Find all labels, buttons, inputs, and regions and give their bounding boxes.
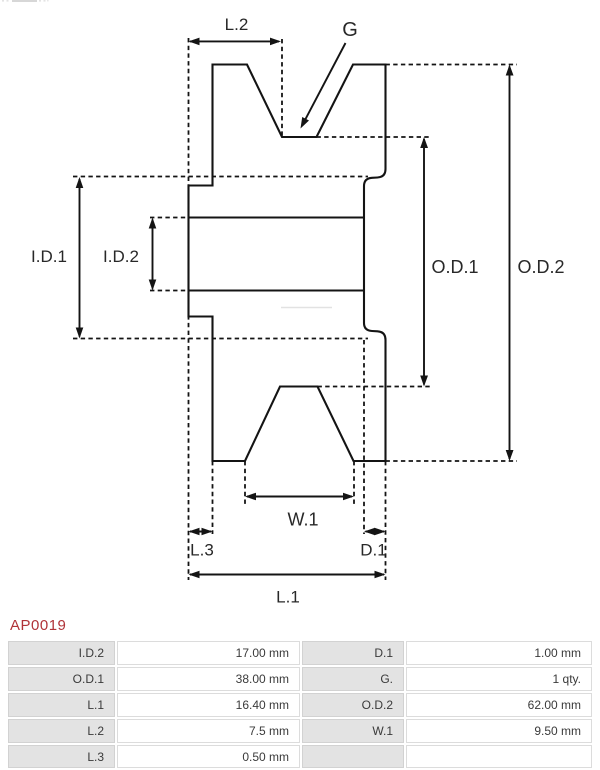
- dimension D.1: [364, 528, 386, 536]
- extension line: left face vertical (x=188.5): [188, 38, 190, 580]
- bore line top (I.D.2 upper): [189, 216, 365, 218]
- dimension L.2: [189, 38, 282, 46]
- extension line: I.D.2 top horizontal: [150, 217, 189, 219]
- svg-text:G: G: [342, 19, 358, 41]
- extension line: bottom O.D.2 horizontal (y=461): [386, 460, 518, 462]
- extension line: I.D.1 top horizontal: [73, 176, 368, 178]
- dimension O.D.1: [420, 137, 428, 387]
- specification table: [6, 639, 594, 770]
- pulley cross-section outline: [189, 65, 386, 462]
- svg-text:L.2: L.2: [225, 15, 249, 34]
- extension line: right face vertical (x=385.5): [385, 461, 387, 580]
- dimension O.D.2: [506, 65, 514, 462]
- dimension L.3: [189, 528, 213, 536]
- extension line: I.D.1 bottom horizontal: [73, 338, 368, 340]
- extension line: trapezoid top horizontal (y=386.5): [318, 386, 431, 388]
- svg-text:L.1: L.1: [276, 588, 300, 607]
- faint cropped logo remnant top-left: [2, 0, 49, 2]
- extension line: D.1 left vertical (x=364): [363, 340, 365, 534]
- faint watermark remnant center: [281, 307, 332, 309]
- dimension L.1: [189, 571, 386, 579]
- extension line: I.D.2 bottom horizontal: [150, 290, 189, 292]
- leader G arrow: [301, 43, 346, 129]
- dimension W.1: [245, 493, 354, 501]
- dimension I.D.2: [149, 218, 157, 291]
- part number heading: [10, 617, 66, 634]
- extension line: top O.D.2 horizontal (y=64.5): [386, 64, 518, 66]
- svg-text:I.D.2: I.D.2: [103, 247, 139, 266]
- bore line bottom (I.D.2 lower): [189, 289, 365, 291]
- svg-text:I.D.1: I.D.1: [31, 247, 67, 266]
- svg-text:O.D.1: O.D.1: [431, 257, 478, 277]
- dimension I.D.1: [76, 177, 84, 339]
- extension line: groove bottom horizontal (y=137): [317, 136, 431, 138]
- extension line: L.2 right vertical (x=282): [281, 39, 283, 137]
- svg-text:W.1: W.1: [287, 510, 318, 530]
- extension line: L.3 right vertical (x=212.5): [212, 461, 214, 534]
- svg-text:D.1: D.1: [360, 541, 386, 560]
- extension line: W.1 right vertical (x=354): [353, 461, 355, 505]
- svg-text:L.3: L.3: [190, 541, 214, 560]
- svg-text:O.D.2: O.D.2: [517, 257, 564, 277]
- extension line: W.1 left vertical (x=245): [244, 461, 246, 505]
